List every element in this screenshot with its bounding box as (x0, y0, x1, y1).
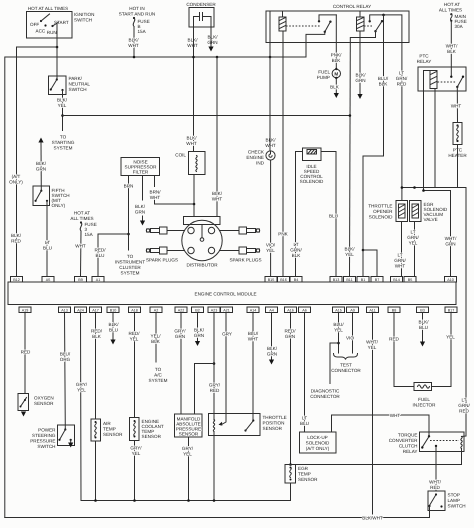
svg-text:ORG: ORG (60, 357, 71, 362)
svg-text:B12: B12 (13, 278, 20, 282)
svg-text:B4: B4 (294, 278, 299, 282)
power steering pressure switch (58, 425, 75, 446)
pin A11 (367, 307, 379, 313)
svg-text:BLK: BLK (332, 58, 342, 63)
svg-text:A22: A22 (178, 309, 185, 313)
svg-text:B5: B5 (408, 278, 413, 282)
svg-text:GRN/: GRN/ (407, 235, 419, 240)
svg-text:CONNECTOR: CONNECTOR (310, 394, 340, 399)
svg-text:GRN/: GRN/ (394, 258, 406, 263)
svg-text:GRN: GRN (285, 334, 295, 339)
svg-text:RED/: RED/ (95, 248, 107, 253)
svg-text:BLK/: BLK/ (345, 247, 356, 252)
dashed link coil 2 to contact 2 (364, 25, 372, 27)
relay coil 2 (357, 11, 365, 31)
svg-text:WHT: WHT (150, 195, 161, 200)
svg-text:THROTTLE: THROTTLE (368, 204, 392, 209)
svg-text:B14: B14 (393, 278, 400, 282)
svg-text:BLK: BLK (379, 82, 389, 87)
dashed link TCC coil to contact (430, 440, 459, 442)
wire: air temp sensor to ground rail (95, 441, 97, 501)
PTC heater (453, 123, 462, 145)
svg-text:ENGINE CONTROL MODULE: ENGINE CONTROL MODULE (195, 292, 257, 297)
svg-text:SYSTEM: SYSTEM (121, 271, 140, 276)
wire: WHT fuse 3 to ECM pin B9 (80, 231, 83, 277)
svg-text:BLK/: BLK/ (11, 233, 22, 238)
air temp sensor (91, 419, 101, 441)
pin A5 (42, 277, 54, 283)
svg-text:HOT AT ALL TIMES: HOT AT ALL TIMES (28, 6, 68, 11)
svg-text:WHT: WHT (212, 197, 223, 202)
pin B4 (290, 277, 302, 283)
svg-text:CONNECTOR: CONNECTOR (331, 368, 361, 373)
node: condenser rail junction (192, 56, 195, 59)
svg-text:TEMP: TEMP (103, 427, 116, 432)
svg-text:GRN: GRN (445, 242, 455, 247)
pin A23 (208, 307, 220, 313)
svg-text:BLK: BLK (447, 49, 457, 54)
ground (filter) (142, 216, 144, 220)
svg-text:GRN: GRN (267, 352, 277, 357)
svg-text:WHT/: WHT/ (429, 480, 441, 485)
wire: LT GRN/RED from relay contact 2 down to solenoid rail (401, 43, 403, 201)
pin B3 (417, 307, 429, 313)
distributor body (182, 220, 222, 260)
wire: branch to diagnostic connector (330, 343, 339, 384)
svg-text:STARTING: STARTING (52, 140, 75, 145)
node: diagnostic branch junction (337, 342, 340, 345)
svg-text:WHT: WHT (265, 143, 276, 148)
svg-text:SOLENOID: SOLENOID (300, 179, 324, 184)
svg-text:OPENER: OPENER (373, 209, 393, 214)
svg-text:B17: B17 (448, 309, 455, 313)
pin A13 (59, 307, 71, 313)
svg-text:GRN: GRN (135, 210, 145, 215)
pin B17 (445, 307, 457, 313)
wire: TCC coil return to EGR sensor node (291, 449, 462, 465)
svg-text:BLK/: BLK/ (36, 161, 47, 166)
node: BLK/WHT distributor feed junction (216, 56, 219, 59)
svg-text:RED: RED (430, 485, 440, 490)
relay coil 1 (279, 11, 286, 31)
wire: BLK/GRN pin B2 to ground (197, 313, 199, 341)
node: MAP ground junction (187, 499, 190, 502)
svg-text:A4: A4 (269, 309, 274, 313)
idle speed control solenoid box (303, 148, 322, 161)
svg-text:START: START (54, 20, 69, 25)
svg-text:TEMP: TEMP (298, 472, 311, 477)
svg-text:BLU: BLU (300, 421, 309, 426)
svg-text:A13: A13 (61, 309, 68, 313)
wire: feed-through to check engine lamp (269, 11, 271, 57)
svg-text:GRY/: GRY/ (76, 382, 88, 387)
wire: idle solenoid BLU to pin B13 (321, 152, 336, 277)
svg-text:YEL: YEL (130, 337, 139, 342)
wire: EGR temp sensor to ground rail (290, 483, 292, 501)
svg-text:LT: LT (293, 242, 298, 247)
svg-text:YEL: YEL (132, 451, 141, 456)
wire: LT GRN/YEL EGR solenoid to pin B5 (414, 222, 416, 277)
svg-text:(A/T ONLY): (A/T ONLY) (306, 446, 330, 451)
pin A6 (299, 307, 311, 313)
node: PTC coil control junction (422, 189, 425, 192)
svg-text:INJECTOR: INJECTOR (413, 403, 437, 408)
svg-text:BLU/: BLU/ (333, 322, 344, 327)
wire: solenoid supply rail (LT GRN/RED) (402, 188, 466, 437)
wire: RED/BLK pin A17 to air temp sensor (95, 313, 97, 420)
ground (B3) (420, 342, 425, 347)
svg-text:GRN: GRN (36, 167, 46, 172)
pin A15 (333, 307, 345, 313)
wire: BLU/WHT pin A14 to TPS switch (252, 313, 254, 421)
node: junction ignition feed split (56, 46, 59, 49)
svg-text:B8: B8 (392, 309, 397, 313)
svg-text:PUMP: PUMP (317, 75, 330, 80)
svg-text:BLK/WHT: BLK/WHT (362, 516, 383, 521)
wire: filter BRN/WHT leg to coil wire (154, 176, 156, 187)
wire: WHT lock-up to TCC relay contact (332, 415, 430, 436)
check engine indicator lamp (266, 57, 275, 160)
svg-text:TO: TO (60, 135, 67, 140)
svg-text:A15: A15 (335, 309, 342, 313)
svg-text:SENSOR: SENSOR (34, 401, 54, 406)
pin B10 (107, 307, 119, 313)
svg-text:LT: LT (410, 230, 415, 235)
pin A14 (247, 307, 259, 313)
svg-text:VIO: VIO (346, 336, 354, 341)
svg-text:SWITCH: SWITCH (69, 87, 87, 92)
svg-text:TEST: TEST (340, 363, 352, 368)
svg-text:A24: A24 (77, 309, 84, 313)
svg-text:POWER: POWER (38, 428, 56, 433)
main fuse 30A (450, 13, 467, 29)
node: TCC coil return junction (289, 463, 292, 466)
svg-text:(A/T: (A/T (12, 174, 21, 179)
svg-text:B2: B2 (195, 309, 200, 313)
svg-text:WHT/: WHT/ (445, 236, 457, 241)
svg-text:BLU: BLU (96, 253, 105, 258)
svg-text:IND: IND (256, 161, 265, 166)
fifth switch box (33, 186, 50, 206)
svg-text:WHT: WHT (128, 43, 139, 48)
svg-text:SENSOR: SENSOR (298, 477, 318, 482)
wire: BLK/GRN pin A4 to ground (271, 313, 273, 360)
wire: coil 2 BLK/GRN to ground (359, 31, 361, 94)
svg-text:SYSTEM: SYSTEM (54, 146, 73, 151)
fuel injector (414, 383, 432, 391)
wire: distributor to right spark plug 2 (220, 250, 240, 252)
wire: RED/BLU branch to ECM pin A1 (98, 234, 129, 277)
dashed link PTC coil to contact (438, 81, 457, 83)
svg-text:BLU: BLU (43, 246, 52, 251)
svg-text:WHT/: WHT/ (446, 44, 458, 49)
svg-text:B7: B7 (375, 278, 380, 282)
svg-text:SENSOR: SENSOR (103, 432, 123, 437)
ground (fuel pump) (334, 93, 339, 98)
svg-text:BLK/: BLK/ (187, 136, 198, 141)
svg-text:PRESSURE: PRESSURE (30, 439, 55, 444)
svg-text:A16: A16 (287, 309, 294, 313)
svg-text:YEL/: YEL/ (151, 334, 162, 339)
wire: MAP sensor to ground rail (188, 437, 190, 501)
svg-text:ENGINE: ENGINE (246, 155, 264, 160)
svg-text:STEERING: STEERING (32, 433, 56, 438)
svg-text:B9: B9 (78, 278, 83, 282)
pin B7 (371, 277, 383, 283)
pin A19 (19, 307, 31, 313)
wire: BLU/YEL pin A15 to test connector (338, 313, 340, 354)
svg-text:ACC: ACC (36, 29, 46, 34)
svg-text:LT: LT (461, 398, 466, 403)
wire: BLK/YEL relay contact to ECM pin B11 (349, 43, 352, 277)
wire: TPS to ground rail (213, 432, 215, 501)
svg-text:YEL: YEL (446, 335, 455, 340)
node: BLU/BLK split (362, 249, 365, 252)
wire: LT BLU pin A6 to lock-up solenoid (304, 313, 306, 433)
wire: main ignition rail (left edge down to bottom rail) (5, 57, 306, 518)
wire: GRY/YEL pin A24 to sensor ground rail (80, 313, 83, 501)
svg-text:OXYGEN: OXYGEN (34, 396, 54, 401)
svg-text:BLU/: BLU/ (248, 331, 259, 336)
wire: GRY pin A21 to TPS wiper (225, 313, 227, 422)
svg-text:B1: B1 (361, 278, 366, 282)
control relay box (266, 11, 409, 43)
pin A1 (92, 277, 104, 283)
pin A24 (75, 307, 87, 313)
ground (oxygen sensor) (21, 412, 26, 417)
svg-text:GRY/: GRY/ (182, 446, 194, 451)
svg-text:GRY/: GRY/ (209, 383, 221, 388)
svg-text:A18: A18 (131, 309, 138, 313)
wire: BLK/WHT bottom ground rail (5, 517, 430, 519)
svg-text:HOT AT: HOT AT (444, 2, 460, 7)
svg-text:POSITION: POSITION (263, 421, 285, 426)
ground (condenser) (208, 47, 213, 52)
svg-text:SENSOR: SENSOR (179, 432, 199, 437)
svg-text:EGR: EGR (298, 466, 309, 471)
distributor cap block (184, 217, 221, 225)
svg-text:A11: A11 (369, 309, 375, 313)
svg-text:RED/: RED/ (91, 329, 103, 334)
svg-text:B16: B16 (280, 278, 287, 282)
manifold absolute pressure sensor box (175, 414, 203, 437)
svg-text:RELAY: RELAY (403, 449, 418, 454)
svg-text:ONLY): ONLY) (52, 203, 66, 208)
pin A16 (285, 307, 297, 313)
svg-text:SENSOR: SENSOR (142, 434, 162, 439)
svg-text:ALL TIMES: ALL TIMES (439, 8, 462, 13)
pin A18 (129, 307, 141, 313)
node: BRN junction to pin A1 (127, 233, 130, 236)
svg-text:SPARK PLUGS: SPARK PLUGS (229, 258, 261, 263)
svg-text:BLU/: BLU/ (60, 352, 71, 357)
svg-text:BLK/: BLK/ (109, 322, 120, 327)
fuse 3 15A (80, 221, 97, 237)
svg-text:YEL: YEL (368, 345, 377, 350)
node: A23 MAP branch junction (213, 362, 216, 365)
svg-text:30A: 30A (455, 24, 464, 29)
lock-up solenoid box (300, 432, 337, 453)
dashed link coil 1 to contact 1 (286, 25, 321, 27)
wire: distributor to left spark plug 1 (167, 230, 185, 232)
pin A21 (221, 307, 233, 313)
svg-text:LT: LT (302, 416, 307, 421)
off-page arrow from starting system (38, 138, 43, 143)
svg-text:SOLENOID: SOLENOID (306, 441, 330, 446)
svg-text:WHT: WHT (390, 413, 401, 418)
svg-text:SYSTEM: SYSTEM (149, 378, 168, 383)
svg-text:OFF: OFF (30, 22, 39, 27)
ignition switch box (27, 12, 73, 39)
svg-text:RED: RED (21, 350, 31, 355)
fuel pump motor (332, 68, 340, 79)
fuse B 15A (133, 17, 150, 34)
wire: coil1 to PNK pin B16 (282, 31, 284, 277)
svg-text:YEL: YEL (183, 452, 192, 457)
svg-text:YEL: YEL (266, 248, 275, 253)
wire: distributor to right spark plug 1 (220, 230, 240, 232)
svg-text:RED/: RED/ (129, 331, 141, 336)
svg-text:PTC: PTC (419, 54, 429, 59)
svg-text:VALVE: VALVE (424, 217, 438, 222)
svg-text:BLK: BLK (92, 334, 102, 339)
wire: ignition switch output down to park/neutral switch (56, 38, 58, 80)
svg-text:BLK/: BLK/ (267, 346, 278, 351)
svg-text:HOT IN: HOT IN (129, 6, 144, 11)
svg-text:DISTRIBUTOR: DISTRIBUTOR (186, 263, 218, 268)
node: EGR solenoid tap (413, 186, 416, 189)
svg-text:A21: A21 (223, 309, 230, 313)
svg-text:B3: B3 (420, 309, 425, 313)
relay contact 1 (306, 15, 336, 57)
svg-text:BLK/: BLK/ (356, 73, 367, 78)
EGR solenoid vacuum valve (410, 201, 422, 222)
throttle position sensor box (209, 414, 261, 436)
svg-text:15A: 15A (138, 29, 147, 34)
svg-text:GRN/: GRN/ (396, 76, 408, 81)
svg-text:YEL: YEL (334, 328, 343, 333)
svg-text:BLU: BLU (109, 328, 118, 333)
pin B8 (388, 307, 400, 313)
pin B14 (391, 277, 403, 283)
pin B13 (330, 277, 342, 283)
svg-text:WHT: WHT (395, 264, 406, 269)
svg-text:CHECK: CHECK (248, 150, 265, 155)
svg-text:BLK/: BLK/ (188, 38, 199, 43)
PTC relay contact (450, 76, 464, 123)
svg-text:BLK/: BLK/ (135, 204, 146, 209)
svg-text:NEUTRAL: NEUTRAL (69, 82, 91, 87)
svg-text:GRN: GRN (194, 333, 204, 338)
svg-text:SWITCH: SWITCH (448, 504, 466, 509)
svg-text:BRN/: BRN/ (150, 190, 162, 195)
pin A4 (266, 307, 278, 313)
svg-text:RED: RED (389, 337, 399, 342)
spark plug left 2 (146, 247, 167, 254)
ground (B10) (110, 340, 115, 345)
pin B9 (75, 277, 87, 283)
svg-text:ONLY): ONLY) (9, 180, 23, 185)
svg-text:TO: TO (127, 254, 134, 259)
wire: BLK/WHT rail to distributor (216, 57, 218, 217)
svg-text:A14: A14 (250, 309, 257, 313)
svg-text:YEL: YEL (345, 252, 354, 257)
svg-text:GRN/: GRN/ (458, 403, 470, 408)
PTC relay coil (424, 71, 438, 191)
node: air temp ground junction (94, 499, 97, 502)
svg-text:BLK: BLK (292, 253, 302, 258)
svg-text:BRN: BRN (124, 184, 134, 189)
node: BLK/YEL rail junction (349, 114, 352, 117)
svg-text:WHT: WHT (187, 43, 198, 48)
svg-text:STOP: STOP (448, 493, 460, 498)
pin B16 (278, 277, 290, 283)
node: TPS ground junction (213, 499, 216, 502)
svg-text:A/C: A/C (154, 373, 162, 378)
ground (power steering switch) (68, 443, 73, 448)
wire: filter BRN leg down to instrument cluster stub (128, 176, 130, 251)
wire: WHT/RED TCC contact to stop lamp switch (435, 446, 437, 491)
svg-text:FUEL: FUEL (418, 397, 430, 402)
svg-text:SWITCH: SWITCH (37, 444, 55, 449)
svg-text:PNK: PNK (278, 232, 288, 237)
svg-text:AIR: AIR (103, 421, 111, 426)
pin A22 (175, 307, 187, 313)
test connector brace (334, 354, 358, 360)
svg-text:TO: TO (155, 367, 162, 372)
wire: WHT/BLK main fuse to PTC relay (450, 21, 452, 77)
wire: BLK/BLU pin B3 to ground (422, 313, 424, 342)
pin A17 (90, 307, 102, 313)
EGR temp sensor (285, 465, 296, 484)
svg-text:GRY/: GRY/ (130, 446, 142, 451)
engine coolant temp sensor (130, 418, 140, 441)
svg-text:B15: B15 (268, 278, 275, 282)
wire: fuel pump BLK to ground (335, 78, 337, 93)
svg-text:CLUTCH: CLUTCH (399, 444, 418, 449)
spark plug left 1 (146, 227, 167, 234)
svg-text:HOT AT: HOT AT (74, 211, 90, 216)
wire: RED/YEL pin A18 to coolant temp sensor (134, 313, 136, 418)
pin B11 (344, 277, 356, 283)
node: throttle solenoid tap (401, 186, 404, 189)
wire: BLK/YEL rail to the right (63, 115, 350, 117)
pin B1 (357, 277, 369, 283)
svg-text:WHT: WHT (75, 244, 86, 249)
pin A9 (347, 307, 359, 313)
svg-text:SWITCH: SWITCH (74, 18, 92, 23)
stop lamp switch (428, 491, 445, 518)
wire: BLK/BLU pin B10 to ground (112, 313, 114, 340)
wire: YEL/BLK pin A2 stub to A/C system (155, 313, 157, 363)
svg-text:GRY/: GRY/ (174, 329, 186, 334)
wire: WHT/YEL pin A11 to bottom rail (372, 313, 374, 515)
svg-text:LT: LT (397, 253, 402, 258)
svg-text:BLU: BLU (329, 214, 338, 219)
svg-text:YEL: YEL (409, 241, 418, 246)
svg-text:BLK/: BLK/ (194, 328, 205, 333)
wire: branch to pin B7 (363, 250, 377, 277)
svg-text:B13: B13 (333, 278, 340, 282)
svg-text:WHT/: WHT/ (366, 340, 378, 345)
svg-text:A9: A9 (350, 309, 355, 313)
node: BLK/YEL junction (61, 114, 64, 117)
svg-text:YEL: YEL (77, 388, 86, 393)
svg-text:CLUSTER: CLUSTER (119, 265, 141, 270)
wire: VIO pin A9 to test connector (352, 313, 354, 354)
node: fuse B rail junction (133, 56, 136, 59)
svg-text:B10: B10 (110, 309, 117, 313)
